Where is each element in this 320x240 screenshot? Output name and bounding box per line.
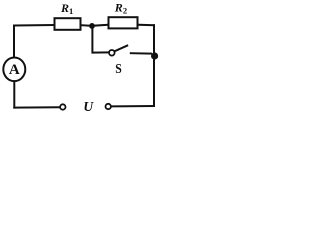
wire: switch right lead to node on right rail — [131, 52, 151, 54]
svg-text:A: A — [9, 62, 20, 78]
svg-text:R2: R2 — [114, 1, 127, 16]
svg-text:S: S — [115, 62, 122, 77]
wire: right vertical from top corner down to bottom corner — [153, 25, 155, 106]
wire: bottom-left horizontal from left terminal to corner — [14, 106, 59, 108]
wire: switch arm (open blade) — [115, 46, 127, 51]
resistor R2 — [109, 17, 138, 28]
wire: bottom-right horizontal from corner to right terminal — [111, 105, 154, 107]
node junction between R1 and R2 — [89, 23, 95, 29]
node junction of switch branch on right rail — [151, 52, 158, 59]
wire: left vertical from top corner down to ammeter — [13, 26, 15, 58]
wire: R1 right lead to junction node — [82, 24, 93, 27]
wire: left vertical from ammeter bottom to bottom corner — [13, 82, 15, 108]
ammeter A — [3, 58, 25, 82]
resistor R1 — [55, 18, 81, 30]
switch S pivot circle — [109, 50, 115, 56]
wire: junction node to R2 left lead — [92, 25, 108, 26]
terminal: bottom-left open circle — [60, 104, 65, 109]
terminal: bottom-right open circle — [106, 104, 111, 109]
svg-text:U: U — [83, 99, 94, 114]
wire: top-left horizontal from left corner to R1 — [14, 24, 54, 27]
wire: switch branch drop from junction node — [92, 26, 108, 53]
svg-text:R1: R1 — [60, 1, 73, 16]
wire: R2 right lead to top-right corner — [139, 24, 155, 26]
